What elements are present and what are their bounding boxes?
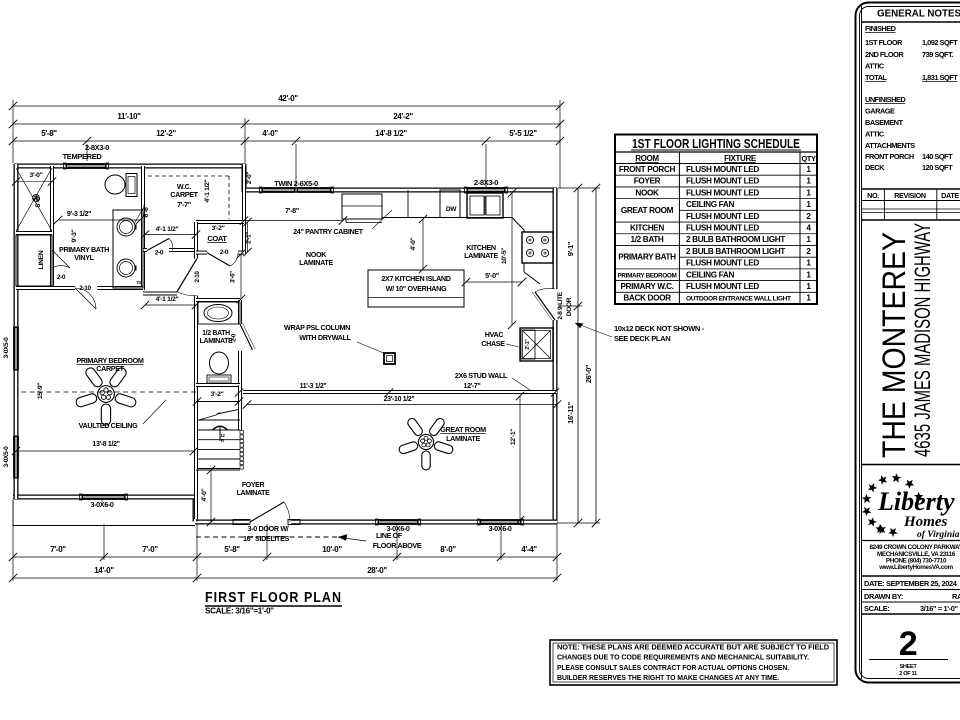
svg-text:2-0: 2-0 <box>57 274 66 281</box>
svg-text:11'-3 1/2": 11'-3 1/2" <box>300 383 327 390</box>
svg-text:26'-0": 26'-0" <box>584 364 593 383</box>
svg-text:DATE: DATE <box>941 191 959 200</box>
svg-text:16'-11": 16'-11" <box>566 401 575 423</box>
svg-text:14'-0": 14'-0" <box>94 566 114 575</box>
svg-text:FOYER: FOYER <box>634 177 661 186</box>
svg-text:CARPET: CARPET <box>170 190 198 199</box>
svg-text:FIXTURE: FIXTURE <box>724 154 757 163</box>
svg-text:NOOK: NOOK <box>635 188 659 197</box>
svg-text:15'-9": 15'-9" <box>37 383 44 399</box>
svg-text:FLUSH MOUNT LED: FLUSH MOUNT LED <box>686 259 759 268</box>
svg-text:2-8X3-0: 2-8X3-0 <box>85 143 109 152</box>
svg-text:7'-0": 7'-0" <box>142 545 158 554</box>
svg-text:23'-10 1/2": 23'-10 1/2" <box>384 396 415 403</box>
svg-text:BUILDER RESERVES THE RIGHT TO: BUILDER RESERVES THE RIGHT TO MAKE CHANG… <box>557 673 779 682</box>
svg-text:3'-2": 3'-2" <box>211 391 224 398</box>
svg-text:FLUSH MOUNT LED: FLUSH MOUNT LED <box>686 165 759 174</box>
svg-text:BASEMENT: BASEMENT <box>865 118 903 127</box>
svg-text:LAMINATE: LAMINATE <box>446 434 480 443</box>
svg-text:ATTIC: ATTIC <box>865 62 885 71</box>
svg-text:4'-4": 4'-4" <box>521 545 537 554</box>
svg-text:140 SQFT: 140 SQFT <box>922 152 953 161</box>
svg-text:5'-0": 5'-0" <box>35 194 42 207</box>
svg-text:COAT: COAT <box>207 234 227 243</box>
svg-text:1ST FLOOR LIGHTING SCHEDULE: 1ST FLOOR LIGHTING SCHEDULE <box>632 137 800 151</box>
svg-text:4635 JAMES MADISON HIGHWAY: 4635 JAMES MADISON HIGHWAY <box>910 223 935 457</box>
svg-text:5'-8": 5'-8" <box>41 129 57 138</box>
svg-text:2-10: 2-10 <box>79 285 91 292</box>
svg-text:2: 2 <box>899 625 918 663</box>
svg-text:4'-0": 4'-0" <box>201 488 208 501</box>
svg-text:3-0X6-0: 3-0X6-0 <box>488 524 511 533</box>
svg-text:5'-8": 5'-8" <box>224 545 240 554</box>
svg-text:72: 72 <box>136 280 141 286</box>
svg-text:FLUSH MOUNT LED: FLUSH MOUNT LED <box>686 177 759 186</box>
svg-text:CHANGES DUE TO CODE REQUIREMEN: CHANGES DUE TO CODE REQUIREMENTS AND MEC… <box>557 653 809 662</box>
svg-text:3-0X6-0: 3-0X6-0 <box>386 524 409 533</box>
svg-text:8249 CROWN COLONY PARKWAY: 8249 CROWN COLONY PARKWAY <box>870 544 960 551</box>
svg-text:7'-7": 7'-7" <box>177 200 191 209</box>
svg-text:FLUSH MOUNT LED: FLUSH MOUNT LED <box>686 188 759 197</box>
svg-text:2-0: 2-0 <box>220 249 229 256</box>
svg-text:NOTE: THESE PLANS ARE DEEMED A: NOTE: THESE PLANS ARE DEEMED ACCURATE BU… <box>557 643 830 652</box>
svg-text:10'-0": 10'-0" <box>322 545 342 554</box>
svg-text:4'-1 1/2": 4'-1 1/2" <box>156 296 179 303</box>
svg-text:28'-0": 28'-0" <box>367 566 387 575</box>
svg-text:FRONT PORCH: FRONT PORCH <box>619 165 676 174</box>
svg-text:3'-2": 3'-2" <box>212 225 225 232</box>
svg-text:GENERAL NOTES: GENERAL NOTES <box>877 8 960 20</box>
svg-text:UNFINISHED: UNFINISHED <box>865 95 906 104</box>
svg-text:5'-0": 5'-0" <box>485 271 499 280</box>
svg-text:1/2 BATH: 1/2 BATH <box>202 330 230 337</box>
svg-text:7'-0": 7'-0" <box>50 545 66 554</box>
svg-text:6'-6": 6'-6" <box>143 204 150 217</box>
svg-text:TWIN 2-6X5-0: TWIN 2-6X5-0 <box>274 179 318 188</box>
svg-text:REVISION: REVISION <box>894 191 926 200</box>
svg-text:2-8 9-LITE: 2-8 9-LITE <box>557 291 564 320</box>
svg-text:RAK: RAK <box>952 592 960 601</box>
svg-text:ATTIC: ATTIC <box>865 130 885 139</box>
svg-text:120 SQFT: 120 SQFT <box>922 163 953 172</box>
svg-text:Liberty: Liberty <box>877 487 955 516</box>
svg-text:DRAWN BY:: DRAWN BY: <box>864 592 903 601</box>
svg-text:2X7 KITCHEN ISLAND: 2X7 KITCHEN ISLAND <box>381 274 450 283</box>
svg-text:3'-6": 3'-6" <box>230 271 237 283</box>
svg-text:10x12 DECK NOT SHOWN -: 10x12 DECK NOT SHOWN - <box>614 324 705 333</box>
svg-text:BACK DOOR: BACK DOOR <box>623 294 671 303</box>
svg-text:SHEET: SHEET <box>900 664 918 670</box>
svg-text:12'-7": 12'-7" <box>464 383 481 390</box>
svg-text:R: R <box>221 438 224 443</box>
svg-text:CARPET: CARPET <box>96 364 124 373</box>
svg-text:WRAP PSL COLUMN: WRAP PSL COLUMN <box>284 323 350 332</box>
svg-text:16" SIDELITES: 16" SIDELITES <box>243 534 290 543</box>
svg-text:13'-8 1/2": 13'-8 1/2" <box>92 441 119 448</box>
svg-text:LAMINATE: LAMINATE <box>299 258 333 267</box>
svg-text:PRIMARY W.C.: PRIMARY W.C. <box>620 282 673 291</box>
svg-text:4'-1 1/2": 4'-1 1/2" <box>204 179 211 202</box>
svg-text:2ND FLOOR: 2ND FLOOR <box>865 50 904 59</box>
svg-text:DOOR: DOOR <box>566 297 573 316</box>
svg-text:14'-8 1/2": 14'-8 1/2" <box>375 129 407 138</box>
svg-text:4'-0": 4'-0" <box>262 129 278 138</box>
svg-text:FLUSH MOUNT LED: FLUSH MOUNT LED <box>686 223 759 232</box>
svg-text:2 BULB BATHROOM LIGHT: 2 BULB BATHROOM LIGHT <box>686 247 785 256</box>
svg-text:CEILING FAN: CEILING FAN <box>686 270 734 279</box>
svg-text:2'-0": 2'-0" <box>246 172 253 185</box>
svg-text:PLEASE CONSULT SALES CONTRACT: PLEASE CONSULT SALES CONTRACT FOR ACTUAL… <box>557 663 789 672</box>
svg-text:12'-1": 12'-1" <box>510 429 517 445</box>
svg-text:4'-1 1/2": 4'-1 1/2" <box>156 226 179 233</box>
svg-text:LINEN: LINEN <box>38 250 45 269</box>
svg-text:OUTDOOR ENTRANCE WALL LIGHT: OUTDOOR ENTRANCE WALL LIGHT <box>686 296 791 303</box>
svg-text:3/16" = 1'-0": 3/16" = 1'-0" <box>920 604 959 613</box>
svg-text:9'-1": 9'-1" <box>566 241 575 256</box>
svg-text:FOYER: FOYER <box>242 482 265 489</box>
svg-text:7'-8": 7'-8" <box>285 206 299 215</box>
svg-text:1/2 BATH: 1/2 BATH <box>631 235 664 244</box>
svg-text:FLUSH MOUNT LED: FLUSH MOUNT LED <box>686 282 759 291</box>
svg-text:2-0: 2-0 <box>231 333 238 342</box>
svg-text:DW: DW <box>446 206 457 213</box>
svg-text:TEMPERED: TEMPERED <box>63 152 103 161</box>
svg-text:3'-0": 3'-0" <box>30 172 43 179</box>
svg-text:SCALE: 3/16"=1'-0": SCALE: 3/16"=1'-0" <box>205 607 274 616</box>
svg-text:VINYL: VINYL <box>74 253 94 262</box>
svg-text:ROOM: ROOM <box>635 154 659 163</box>
svg-text:DATE: SEPTEMBER 25, 2024: DATE: SEPTEMBER 25, 2024 <box>864 579 958 588</box>
svg-text:24'-2": 24'-2" <box>393 112 413 121</box>
svg-text:CEILING FAN: CEILING FAN <box>686 200 734 209</box>
svg-text:12'-2": 12'-2" <box>156 129 176 138</box>
svg-text:1ST FLOOR: 1ST FLOOR <box>865 38 903 47</box>
svg-text:HVAC: HVAC <box>485 330 504 339</box>
svg-text:PRIMARY BATH: PRIMARY BATH <box>618 253 676 262</box>
svg-text:8'-0": 8'-0" <box>440 545 456 554</box>
svg-text:GREAT ROOM: GREAT ROOM <box>621 206 674 215</box>
svg-text:739 SQFT.: 739 SQFT. <box>922 50 953 59</box>
svg-text:NO.: NO. <box>867 191 879 200</box>
svg-text:FLUSH MOUNT LED: FLUSH MOUNT LED <box>686 212 759 221</box>
svg-text:SEE DECK PLAN: SEE DECK PLAN <box>614 334 670 343</box>
svg-text:WITH DRYWALL: WITH DRYWALL <box>299 333 351 342</box>
svg-text:9'-3 1/2": 9'-3 1/2" <box>67 209 91 218</box>
svg-text:DECK: DECK <box>865 163 885 172</box>
svg-text:SCALE:: SCALE: <box>864 604 889 613</box>
svg-text:11'-10": 11'-10" <box>117 112 141 121</box>
svg-text:42'-0": 42'-0" <box>278 94 298 103</box>
svg-text:2-10: 2-10 <box>194 271 201 283</box>
svg-text:5'-5 1/2": 5'-5 1/2" <box>509 129 537 138</box>
svg-text:1,092 SQFT: 1,092 SQFT <box>922 38 958 47</box>
svg-text:VAULTED CEILING: VAULTED CEILING <box>79 421 139 430</box>
svg-text:of Virginia: of Virginia <box>917 530 960 540</box>
svg-text:GREAT ROOM: GREAT ROOM <box>440 425 486 434</box>
svg-text:2 BULB BATHROOM LIGHT: 2 BULB BATHROOM LIGHT <box>686 235 785 244</box>
svg-text:4'-0": 4'-0" <box>410 237 417 250</box>
svg-text:LAMINATE: LAMINATE <box>237 490 271 497</box>
svg-text:3-0X5-0: 3-0X5-0 <box>3 446 10 467</box>
svg-text:TOTAL: TOTAL <box>865 73 887 82</box>
svg-text:KITCHEN: KITCHEN <box>630 223 664 232</box>
svg-text:FIRST FLOOR PLAN: FIRST FLOOR PLAN <box>205 590 342 606</box>
svg-text:2 OF 11: 2 OF 11 <box>899 671 917 677</box>
svg-text:ATTACHMENTS: ATTACHMENTS <box>865 141 915 150</box>
svg-text:2X6 STUD WALL: 2X6 STUD WALL <box>455 371 508 380</box>
svg-text:1,831 SQFT: 1,831 SQFT <box>922 73 958 82</box>
svg-text:LAMINATE: LAMINATE <box>464 251 498 260</box>
svg-text:2'-1": 2'-1" <box>246 232 253 244</box>
svg-text:2'-1": 2'-1" <box>525 339 531 350</box>
svg-text:W/ 10" OVERHANG: W/ 10" OVERHANG <box>386 284 447 293</box>
svg-text:LAMINATE: LAMINATE <box>200 338 234 345</box>
svg-text:CHASE: CHASE <box>481 339 505 348</box>
svg-text:THE MONTEREY: THE MONTEREY <box>876 232 912 458</box>
svg-text:PRIMARY BEDROOM: PRIMARY BEDROOM <box>617 272 676 279</box>
svg-text:2-8X3-0: 2-8X3-0 <box>474 178 498 187</box>
svg-text:3-0X5-0: 3-0X5-0 <box>3 337 10 358</box>
svg-text:GARAGE: GARAGE <box>865 107 895 116</box>
svg-text:9'-3": 9'-3" <box>71 229 78 242</box>
svg-text:3-0 DOOR W/: 3-0 DOOR W/ <box>248 524 289 533</box>
svg-text:Homes: Homes <box>903 514 947 530</box>
svg-text:24" PANTRY CABINET: 24" PANTRY CABINET <box>293 227 364 236</box>
svg-text:FINISHED: FINISHED <box>865 24 897 33</box>
svg-text:10'-5": 10'-5" <box>501 248 508 264</box>
svg-text:FRONT PORCH: FRONT PORCH <box>865 152 914 161</box>
svg-text:QTY: QTY <box>801 154 816 163</box>
svg-text:www.LibertyHomesVA.com: www.LibertyHomesVA.com <box>878 564 953 571</box>
svg-text:2-0: 2-0 <box>155 250 164 257</box>
